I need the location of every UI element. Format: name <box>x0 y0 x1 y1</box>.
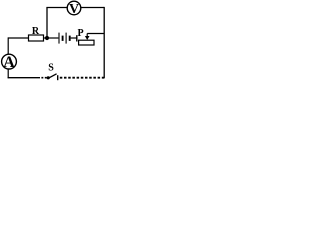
svg-text:R: R <box>32 26 40 37</box>
node A junction dot <box>45 36 49 40</box>
svg-text:P: P <box>77 28 83 39</box>
ammeter A <box>2 54 17 71</box>
svg-text:S: S <box>48 63 54 74</box>
svg-text:A: A <box>3 54 15 71</box>
voltmeter V <box>67 1 81 17</box>
wire: left edge vertical lower (ammeter to bottom rail) <box>7 69 9 78</box>
battery cell 2 positive plate <box>65 33 67 44</box>
switch S left contact <box>47 76 50 79</box>
wire: bottom rail solid segment <box>8 77 40 79</box>
rheostat slider arrow <box>86 34 88 37</box>
wire: slider to right edge <box>87 33 104 35</box>
wire: resistor to node A <box>44 37 48 39</box>
battery cell 1 positive plate <box>58 33 60 44</box>
battery cell 1 negative plate <box>62 36 64 41</box>
wire: right edge vertical <box>103 7 105 78</box>
resistor R <box>29 26 44 41</box>
svg-text:V: V <box>69 2 79 17</box>
rheostat P <box>77 28 94 45</box>
wire: left edge vertical upper (to ammeter) <box>7 37 9 54</box>
wire: battery to rheostat terminal <box>71 37 77 39</box>
wire: left horizontal to resistor <box>8 37 28 39</box>
rheostat left terminal bar <box>76 35 78 41</box>
wire: short dashed segment before switch <box>41 77 47 79</box>
switch S right contact tick <box>57 75 59 80</box>
switch S lever <box>48 74 56 78</box>
battery cell 2 negative plate <box>69 36 71 41</box>
wire: top rail left segment to voltmeter <box>46 7 67 9</box>
wire: top-left vertical from node A up to top rail <box>46 8 48 39</box>
wire: dashed bottom rail to right corner <box>60 77 105 79</box>
wire: top rail right segment from voltmeter to top-right corner <box>81 7 104 9</box>
wire: node A to battery <box>47 37 58 39</box>
